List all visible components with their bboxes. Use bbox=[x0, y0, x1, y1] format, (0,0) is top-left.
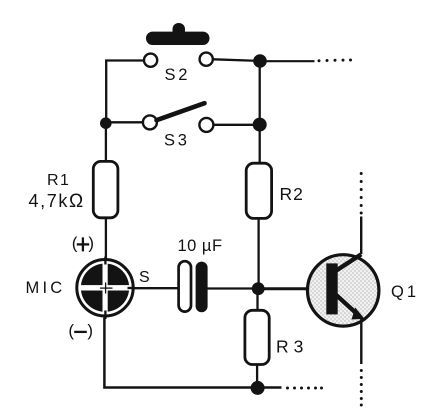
dotted continuation bottom rail bbox=[286, 387, 323, 390]
node left rail / S3 junction bbox=[100, 117, 112, 129]
resistor R2 bbox=[246, 163, 271, 218]
dotted continuation top-right bbox=[318, 59, 353, 63]
node bottom junction bbox=[251, 381, 265, 395]
svg-text:R1: R1 bbox=[47, 172, 70, 189]
svg-text:S: S bbox=[139, 269, 150, 286]
node center junction bbox=[252, 282, 265, 295]
wire S2 right contact to top-right node bbox=[214, 59, 261, 61]
switch S3 right contact bbox=[199, 118, 213, 132]
svg-text:4,7kΩ: 4,7kΩ bbox=[29, 191, 85, 212]
svg-text:R2: R2 bbox=[280, 184, 304, 204]
transistor Q1 bbox=[308, 254, 379, 326]
wire collector lead bbox=[360, 217, 362, 255]
switch S3 lever bbox=[157, 103, 205, 120]
capacitor C1 left plate bbox=[179, 261, 191, 311]
wire R1 top lead bbox=[105, 123, 107, 162]
svg-text:Q1: Q1 bbox=[391, 283, 419, 301]
svg-text:): ) bbox=[87, 321, 93, 340]
wire R3 bottom lead bbox=[256, 365, 258, 385]
switch S3 left contact bbox=[143, 115, 157, 129]
wire top-right output stub bbox=[260, 60, 315, 62]
wire R2 bottom lead to node bbox=[257, 218, 259, 285]
wire capacitor to center node bbox=[208, 287, 259, 289]
svg-text:(: ( bbox=[68, 321, 74, 340]
wire node to R3 bbox=[256, 289, 258, 311]
wire left branch: S2 left contact to left rail corner bbox=[106, 61, 143, 124]
label (+) bbox=[72, 233, 94, 252]
node right rail / S3 junction bbox=[253, 118, 267, 132]
dotted collector continuation bbox=[360, 172, 363, 215]
wire bottom rail bbox=[104, 318, 281, 388]
switch S2 left contact bbox=[144, 54, 157, 67]
svg-text:S2: S2 bbox=[165, 66, 191, 84]
capacitor C1 right plate bbox=[196, 262, 208, 313]
resistor R3 bbox=[245, 310, 269, 364]
svg-text:R3: R3 bbox=[276, 336, 308, 356]
svg-text:10 µF: 10 µF bbox=[178, 237, 223, 255]
label (-) bbox=[68, 321, 93, 340]
switch S2 right contact bbox=[200, 53, 213, 66]
microphone MIC body bbox=[77, 257, 135, 320]
wire S3 left bbox=[106, 121, 142, 123]
svg-text:): ) bbox=[88, 233, 94, 252]
resistor R1 bbox=[93, 161, 118, 217]
wire base (node to Q1) bbox=[258, 287, 327, 290]
node top-right junction bbox=[253, 54, 267, 68]
svg-text:(: ( bbox=[72, 233, 78, 252]
wire R1 bottom lead bbox=[105, 218, 107, 260]
svg-text:S3: S3 bbox=[164, 132, 190, 150]
pushbutton cap of S2 bbox=[146, 23, 210, 45]
wire emitter lead bbox=[360, 319, 362, 365]
wire S3 right bbox=[214, 124, 260, 126]
wire right rail (node to R2 top) bbox=[259, 61, 261, 164]
dotted emitter continuation bbox=[360, 369, 363, 407]
svg-text:MIC: MIC bbox=[26, 279, 66, 297]
wire MIC to capacitor bbox=[134, 287, 179, 289]
